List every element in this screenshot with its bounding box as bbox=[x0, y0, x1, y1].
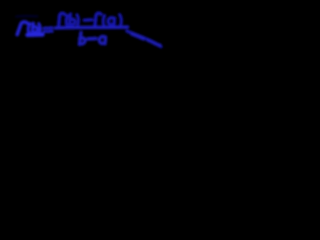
underline bbox=[27, 33, 42, 37]
diagonal stroke bbox=[127, 31, 161, 47]
faint smudge bbox=[16, 15, 38, 18]
numerator f(b) bbox=[59, 13, 65, 26]
numerator minus bbox=[84, 18, 91, 22]
denominator a bbox=[99, 36, 105, 43]
LHS b glyph bbox=[32, 23, 33, 32]
numerator f(a) bbox=[95, 13, 101, 26]
fraction bar bbox=[56, 27, 128, 28]
approx sign bbox=[44, 26, 52, 30]
LHS f bbox=[17, 22, 27, 35]
LHS ) bbox=[39, 24, 40, 34]
denominator b bbox=[79, 33, 81, 45]
LHS ( bbox=[28, 24, 30, 34]
denominator minus bbox=[88, 37, 96, 41]
